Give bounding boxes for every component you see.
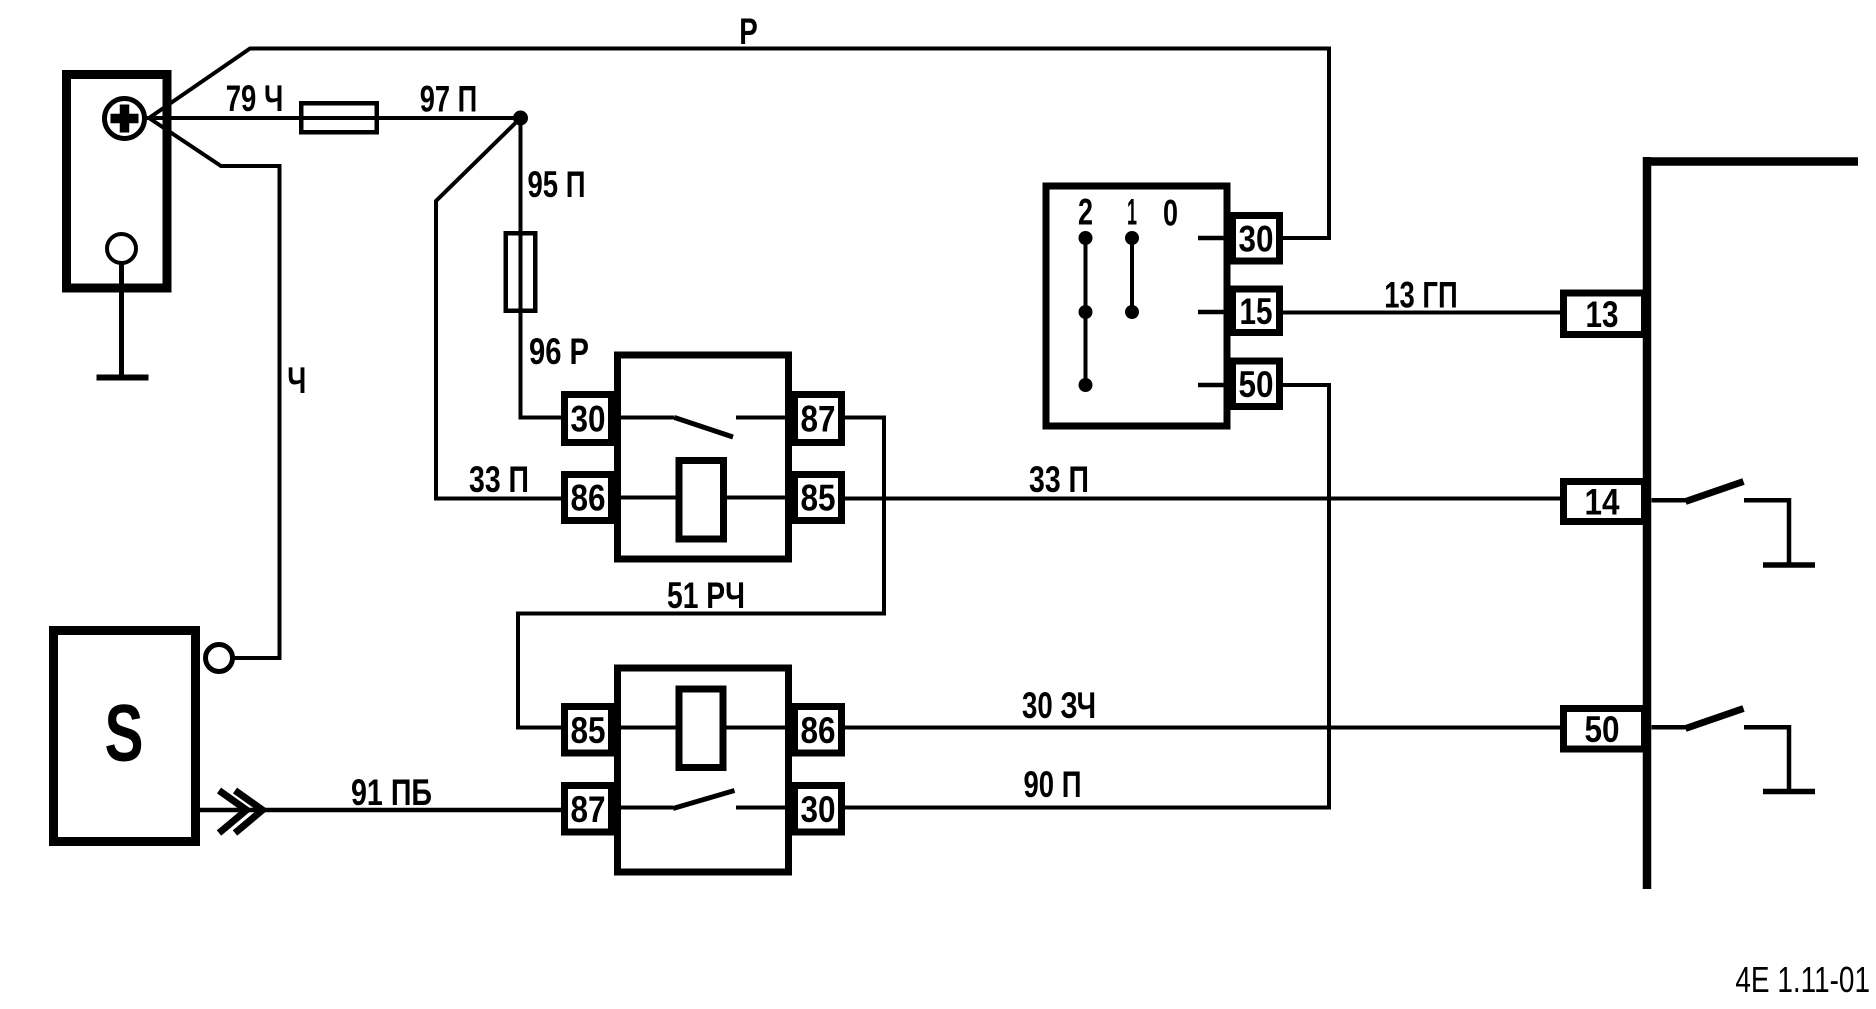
main harness bar vertical xyxy=(1643,157,1652,889)
battery GB box xyxy=(67,75,168,289)
relay K2 coil wires xyxy=(621,726,677,730)
svg-text:4Е 1.11-01: 4Е 1.11-01 xyxy=(1735,959,1870,1000)
ignition pin 15 xyxy=(1233,289,1280,333)
wire 91 ПБ starter S to relay K2 pin 87 xyxy=(196,808,563,813)
svg-text:13 ГП: 13 ГП xyxy=(1384,275,1457,316)
starter S box xyxy=(54,631,196,842)
svg-text:S: S xyxy=(105,689,144,779)
relay K2 pin 87 xyxy=(565,786,612,833)
svg-text:86: 86 xyxy=(571,478,606,519)
main harness bar top horizontal xyxy=(1643,157,1858,166)
wire 79 Ч / 97 П battery plus to junction xyxy=(146,116,521,120)
ignition position bars xyxy=(1084,238,1088,385)
ground at connector 14 switch xyxy=(1763,562,1815,568)
svg-text:Ч: Ч xyxy=(287,360,306,401)
wire 13 ГП ignition pin 15 to connector 13 xyxy=(1281,311,1562,315)
ignition switch box xyxy=(1046,186,1227,426)
ground xyxy=(97,375,149,381)
relay K2 contact xyxy=(621,806,673,810)
svg-text:13: 13 xyxy=(1586,294,1619,335)
svg-text:85: 85 xyxy=(801,478,836,519)
relay K1 coil wires xyxy=(621,496,677,500)
switch at connector 14 xyxy=(1652,498,1687,503)
fuse F1 (79Ч/97П) xyxy=(301,103,377,132)
relay K2 pin 86 xyxy=(795,707,842,754)
battery plus terminal xyxy=(105,99,145,139)
wire 95 П / 96 Р junction down to relay K1 pin 30 xyxy=(521,118,564,418)
wire 51 РЧ from relay K1 pin 87 to relay K2 pin 85 xyxy=(518,418,884,728)
relay K1 pin 86 xyxy=(565,475,612,521)
svg-text:87: 87 xyxy=(571,789,606,830)
svg-text:91 ПБ: 91 ПБ xyxy=(351,772,432,813)
relay K1 contact xyxy=(621,416,675,420)
relay K2 pin 85 xyxy=(565,707,612,754)
svg-text:2: 2 xyxy=(1078,192,1093,233)
svg-text:87: 87 xyxy=(801,399,836,440)
starter terminal circle xyxy=(206,645,233,672)
battery ground wire xyxy=(119,263,124,378)
svg-text:50: 50 xyxy=(1239,364,1274,405)
svg-text:30: 30 xyxy=(571,399,606,440)
relay K2 body xyxy=(618,668,789,872)
svg-text:51 РЧ: 51 РЧ xyxy=(667,575,745,616)
wire 90 П relay K2 pin 30 to ignition pin 50 riser xyxy=(843,806,1331,810)
svg-text:1: 1 xyxy=(1127,192,1137,233)
wire ignition pin 50 down to 90 П xyxy=(1281,385,1329,808)
wire P top from battery to ignition pin 30 xyxy=(149,49,1329,239)
battery minus terminal xyxy=(107,234,136,263)
svg-text:90 П: 90 П xyxy=(1024,764,1082,805)
svg-text:33 П: 33 П xyxy=(469,459,529,500)
connector 14 xyxy=(1564,482,1645,522)
ignition pin 50 xyxy=(1233,361,1280,407)
node junction 97П/95П/33П xyxy=(513,111,528,126)
ignition pin 30 xyxy=(1233,216,1280,262)
svg-text:15: 15 xyxy=(1240,291,1273,332)
wire 33 П relay K1 pin 85 to connector 14 xyxy=(843,497,1562,501)
fuse F2 (95П/96Р) xyxy=(506,233,536,311)
ground at connector 50 switch xyxy=(1763,789,1815,795)
switch at connector 50 xyxy=(1652,725,1687,730)
relay K1 pin 30 xyxy=(565,395,612,443)
wire 33 П junction diagonal to relay K1 pin 86 xyxy=(436,118,563,499)
svg-text:50: 50 xyxy=(1585,709,1620,750)
svg-text:30 ЗЧ: 30 ЗЧ xyxy=(1022,685,1096,726)
connector 50 xyxy=(1564,709,1645,750)
relay K2 pin 30 xyxy=(795,786,842,833)
svg-text:85: 85 xyxy=(571,710,606,751)
wire 30 ЗЧ relay K2 pin 86 to connector 50 xyxy=(843,726,1562,730)
connector arrow chevrons on 91 ПБ xyxy=(219,791,247,834)
svg-text:0: 0 xyxy=(1163,193,1178,234)
svg-text:95 П: 95 П xyxy=(528,164,586,205)
connector 13 xyxy=(1564,293,1645,335)
svg-text:33 П: 33 П xyxy=(1029,459,1089,500)
wire Ч battery to starter terminal xyxy=(149,118,280,658)
relay K2 coil xyxy=(679,689,723,768)
svg-text:30: 30 xyxy=(801,789,836,830)
relay K1 pin 85 xyxy=(795,475,842,521)
svg-text:86: 86 xyxy=(801,710,836,751)
relay K1 coil xyxy=(679,461,724,540)
svg-text:Р: Р xyxy=(739,11,758,52)
svg-text:14: 14 xyxy=(1585,482,1620,523)
svg-text:96 Р: 96 Р xyxy=(529,331,589,372)
relay K1 pin 87 xyxy=(795,395,842,443)
svg-text:30: 30 xyxy=(1239,218,1274,259)
svg-text:97 П: 97 П xyxy=(420,79,478,120)
svg-text:79 Ч: 79 Ч xyxy=(226,78,284,119)
relay K1 body xyxy=(618,355,789,559)
ignition pin stubs xyxy=(1198,236,1229,241)
